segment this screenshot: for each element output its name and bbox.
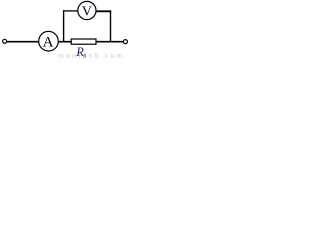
ammeter A1 <box>39 31 59 51</box>
wire left horizontal <box>7 41 40 43</box>
resistor Rx box <box>71 39 96 44</box>
node junction left post <box>63 10 65 42</box>
svg-text:A: A <box>43 35 54 51</box>
wire ammeter to resistor <box>58 41 71 43</box>
left terminal <box>3 39 7 43</box>
voltmeter V1 <box>78 1 96 19</box>
wire top right <box>96 10 112 12</box>
svg-text:manfen5.com: manfen5.com <box>58 53 125 60</box>
node junction right post <box>110 10 112 42</box>
wire resistor to right terminal <box>96 41 123 43</box>
right terminal <box>123 40 127 44</box>
svg-text:V: V <box>82 5 92 20</box>
wire top left <box>63 10 78 12</box>
